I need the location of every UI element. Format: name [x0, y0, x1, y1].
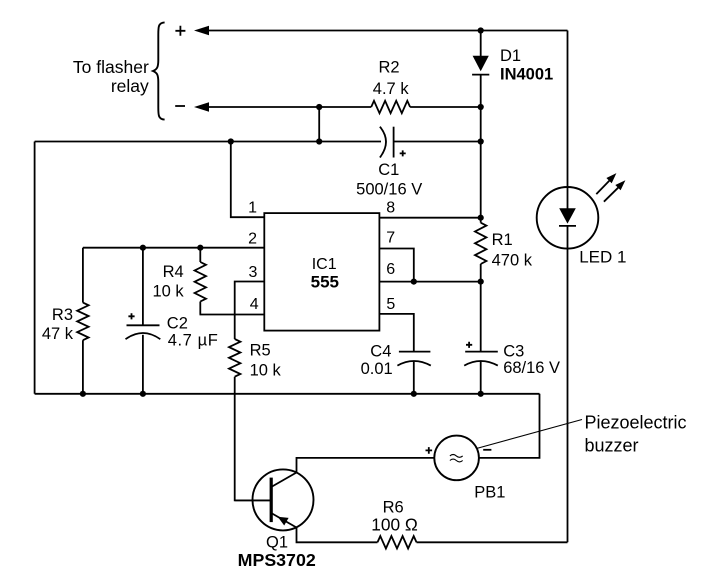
junction: bus / C2	[140, 391, 146, 397]
LED LED1	[537, 173, 627, 266]
wire: V+ rail (arrow to relay, across top)	[194, 26, 568, 36]
capacitor C3 (68/16 V electrolytic)	[464, 282, 560, 394]
svg-text:C2: C2	[167, 314, 188, 332]
wire: D1 cathode node down to pin 8 node	[480, 107, 482, 218]
wire: pin 7 link down to pin 6	[379, 249, 413, 282]
wire: pin 4 to R4 bottom	[200, 314, 265, 316]
wire: left rail top segment to C1 left plate	[35, 141, 381, 143]
wire: pin 1 to C1 rail	[231, 142, 264, 218]
svg-text:1: 1	[248, 200, 257, 217]
wire: R5 bottom to Q1 base	[235, 377, 272, 501]
wire: R6 to LED cathode rail	[417, 541, 568, 543]
wire: pin 6 node to R1 bottom	[379, 281, 480, 283]
svg-text:500/16 V: 500/16 V	[356, 181, 422, 199]
svg-text:68/16 V: 68/16 V	[503, 359, 560, 377]
wire: C1 plus plate to D1 node	[394, 141, 481, 143]
wire: pin 2 node to R3/C2/R4	[83, 247, 264, 249]
diode D1 (IN4001)	[472, 31, 553, 108]
svg-text:R3: R3	[52, 306, 73, 324]
svg-text:4.7 µF: 4.7 µF	[168, 332, 219, 350]
svg-text:D1: D1	[500, 47, 521, 65]
junction: C1 rail / link wire	[316, 138, 322, 144]
wire: pin 3 out to R5 top	[235, 282, 265, 340]
junction: pin 8 node / R1 top	[478, 215, 484, 221]
junction: bus / C3	[478, 391, 484, 397]
svg-text:R5: R5	[250, 341, 271, 359]
junction: C1 rail / pin 1 wire	[228, 138, 234, 144]
wire: top rail corner down to LED anode	[567, 31, 569, 188]
wire: link from minus rail to C1 rail	[318, 107, 320, 142]
svg-text:47 k: 47 k	[42, 325, 74, 343]
svg-text:470 k: 470 k	[492, 251, 533, 269]
resistor R3 (47 k)	[42, 248, 89, 394]
node: - terminal to flasher relay	[175, 105, 185, 107]
junction: bus / R3	[80, 391, 86, 397]
svg-text:buzzer: buzzer	[585, 436, 639, 456]
brace for flasher relay terminals	[153, 22, 165, 119]
svg-text:relay: relay	[111, 76, 149, 96]
svg-text:R4: R4	[163, 263, 184, 281]
svg-text:LED 1: LED 1	[579, 248, 626, 267]
junction: top rail / D1 anode	[478, 27, 484, 33]
wire: pin 8 to D1/R1 node	[379, 217, 480, 219]
svg-text:R1: R1	[492, 231, 513, 249]
wire: minus rail with arrow to relay	[194, 102, 371, 112]
svg-text:555: 555	[311, 273, 339, 292]
resistor R2	[371, 59, 410, 114]
junction: C1 rail / D1 node	[478, 138, 484, 144]
svg-text:7: 7	[386, 230, 395, 247]
transistor Q1 (MPS3702, PNP)	[235, 469, 316, 570]
wire: Q1 collector up to buzzer plus	[297, 458, 435, 473]
svg-text:10 k: 10 k	[250, 361, 282, 379]
wire: pin 5 down to C4	[379, 314, 413, 352]
wire: LED cathode down right side	[567, 249, 569, 543]
svg-text:2: 2	[248, 231, 257, 248]
wire: outer left rail	[34, 142, 36, 394]
svg-text:5: 5	[386, 296, 395, 313]
junction: minus rail / link wire	[316, 104, 322, 110]
svg-text:IC1: IC1	[312, 256, 337, 273]
capacitor C4 (0.01)	[361, 343, 431, 394]
svg-text:PB1: PB1	[474, 484, 505, 502]
resistor R4 (10 k)	[153, 248, 206, 315]
svg-text:10 k: 10 k	[153, 283, 185, 301]
svg-text:MPS3702: MPS3702	[238, 550, 316, 570]
svg-text:4.7 k: 4.7 k	[373, 80, 410, 98]
svg-text:To flasher: To flasher	[73, 57, 149, 77]
svg-text:4: 4	[250, 296, 259, 313]
junction: pin 2 node / C2	[140, 245, 146, 251]
svg-text:0.01: 0.01	[361, 360, 393, 378]
capacitor C2 (4.7 uF electrolytic)	[126, 248, 219, 394]
svg-text:Q1: Q1	[266, 534, 288, 552]
svg-text:6: 6	[386, 261, 395, 278]
resistor R1 (470 k)	[475, 218, 533, 282]
label: To flasher relay	[73, 57, 149, 96]
wire: bottom ground bus	[35, 393, 540, 395]
op-amp/timer IC1 555 box	[264, 213, 379, 331]
junction: minus rail / D1 cathode	[478, 104, 484, 110]
buzzer PB1 (piezoelectric)	[426, 436, 506, 502]
svg-text:C3: C3	[503, 343, 524, 361]
junction: bus / C4	[411, 391, 417, 397]
svg-text:3: 3	[248, 264, 257, 281]
capacitor C1 (500/16 V electrolytic)	[356, 127, 422, 199]
resistor R6 (100 ohm)	[371, 498, 418, 548]
junction: pin 6 node / R1 bottom	[478, 279, 484, 285]
svg-text:Piezoelectric: Piezoelectric	[585, 413, 687, 433]
svg-text:R2: R2	[378, 59, 399, 77]
wire: bus corner down to buzzer minus	[479, 394, 540, 458]
svg-text:100 Ω: 100 Ω	[371, 515, 418, 535]
svg-text:R6: R6	[383, 498, 404, 516]
junction: pin 2 node / R4	[197, 245, 203, 251]
junction: pin 6 node / pin 7 link	[411, 279, 417, 285]
svg-text:IN4001: IN4001	[500, 66, 553, 84]
svg-text:8: 8	[386, 200, 395, 217]
node: + terminal to flasher relay	[175, 26, 185, 36]
label: Piezoelectric buzzer with leader line	[477, 413, 687, 456]
svg-text:C4: C4	[370, 343, 391, 361]
wire: Q1 emitter down to R6	[297, 528, 378, 543]
wire: R2 right lead to D1 cathode node	[410, 106, 481, 108]
svg-text:C1: C1	[378, 161, 399, 179]
resistor R5 (10 k)	[229, 339, 282, 379]
